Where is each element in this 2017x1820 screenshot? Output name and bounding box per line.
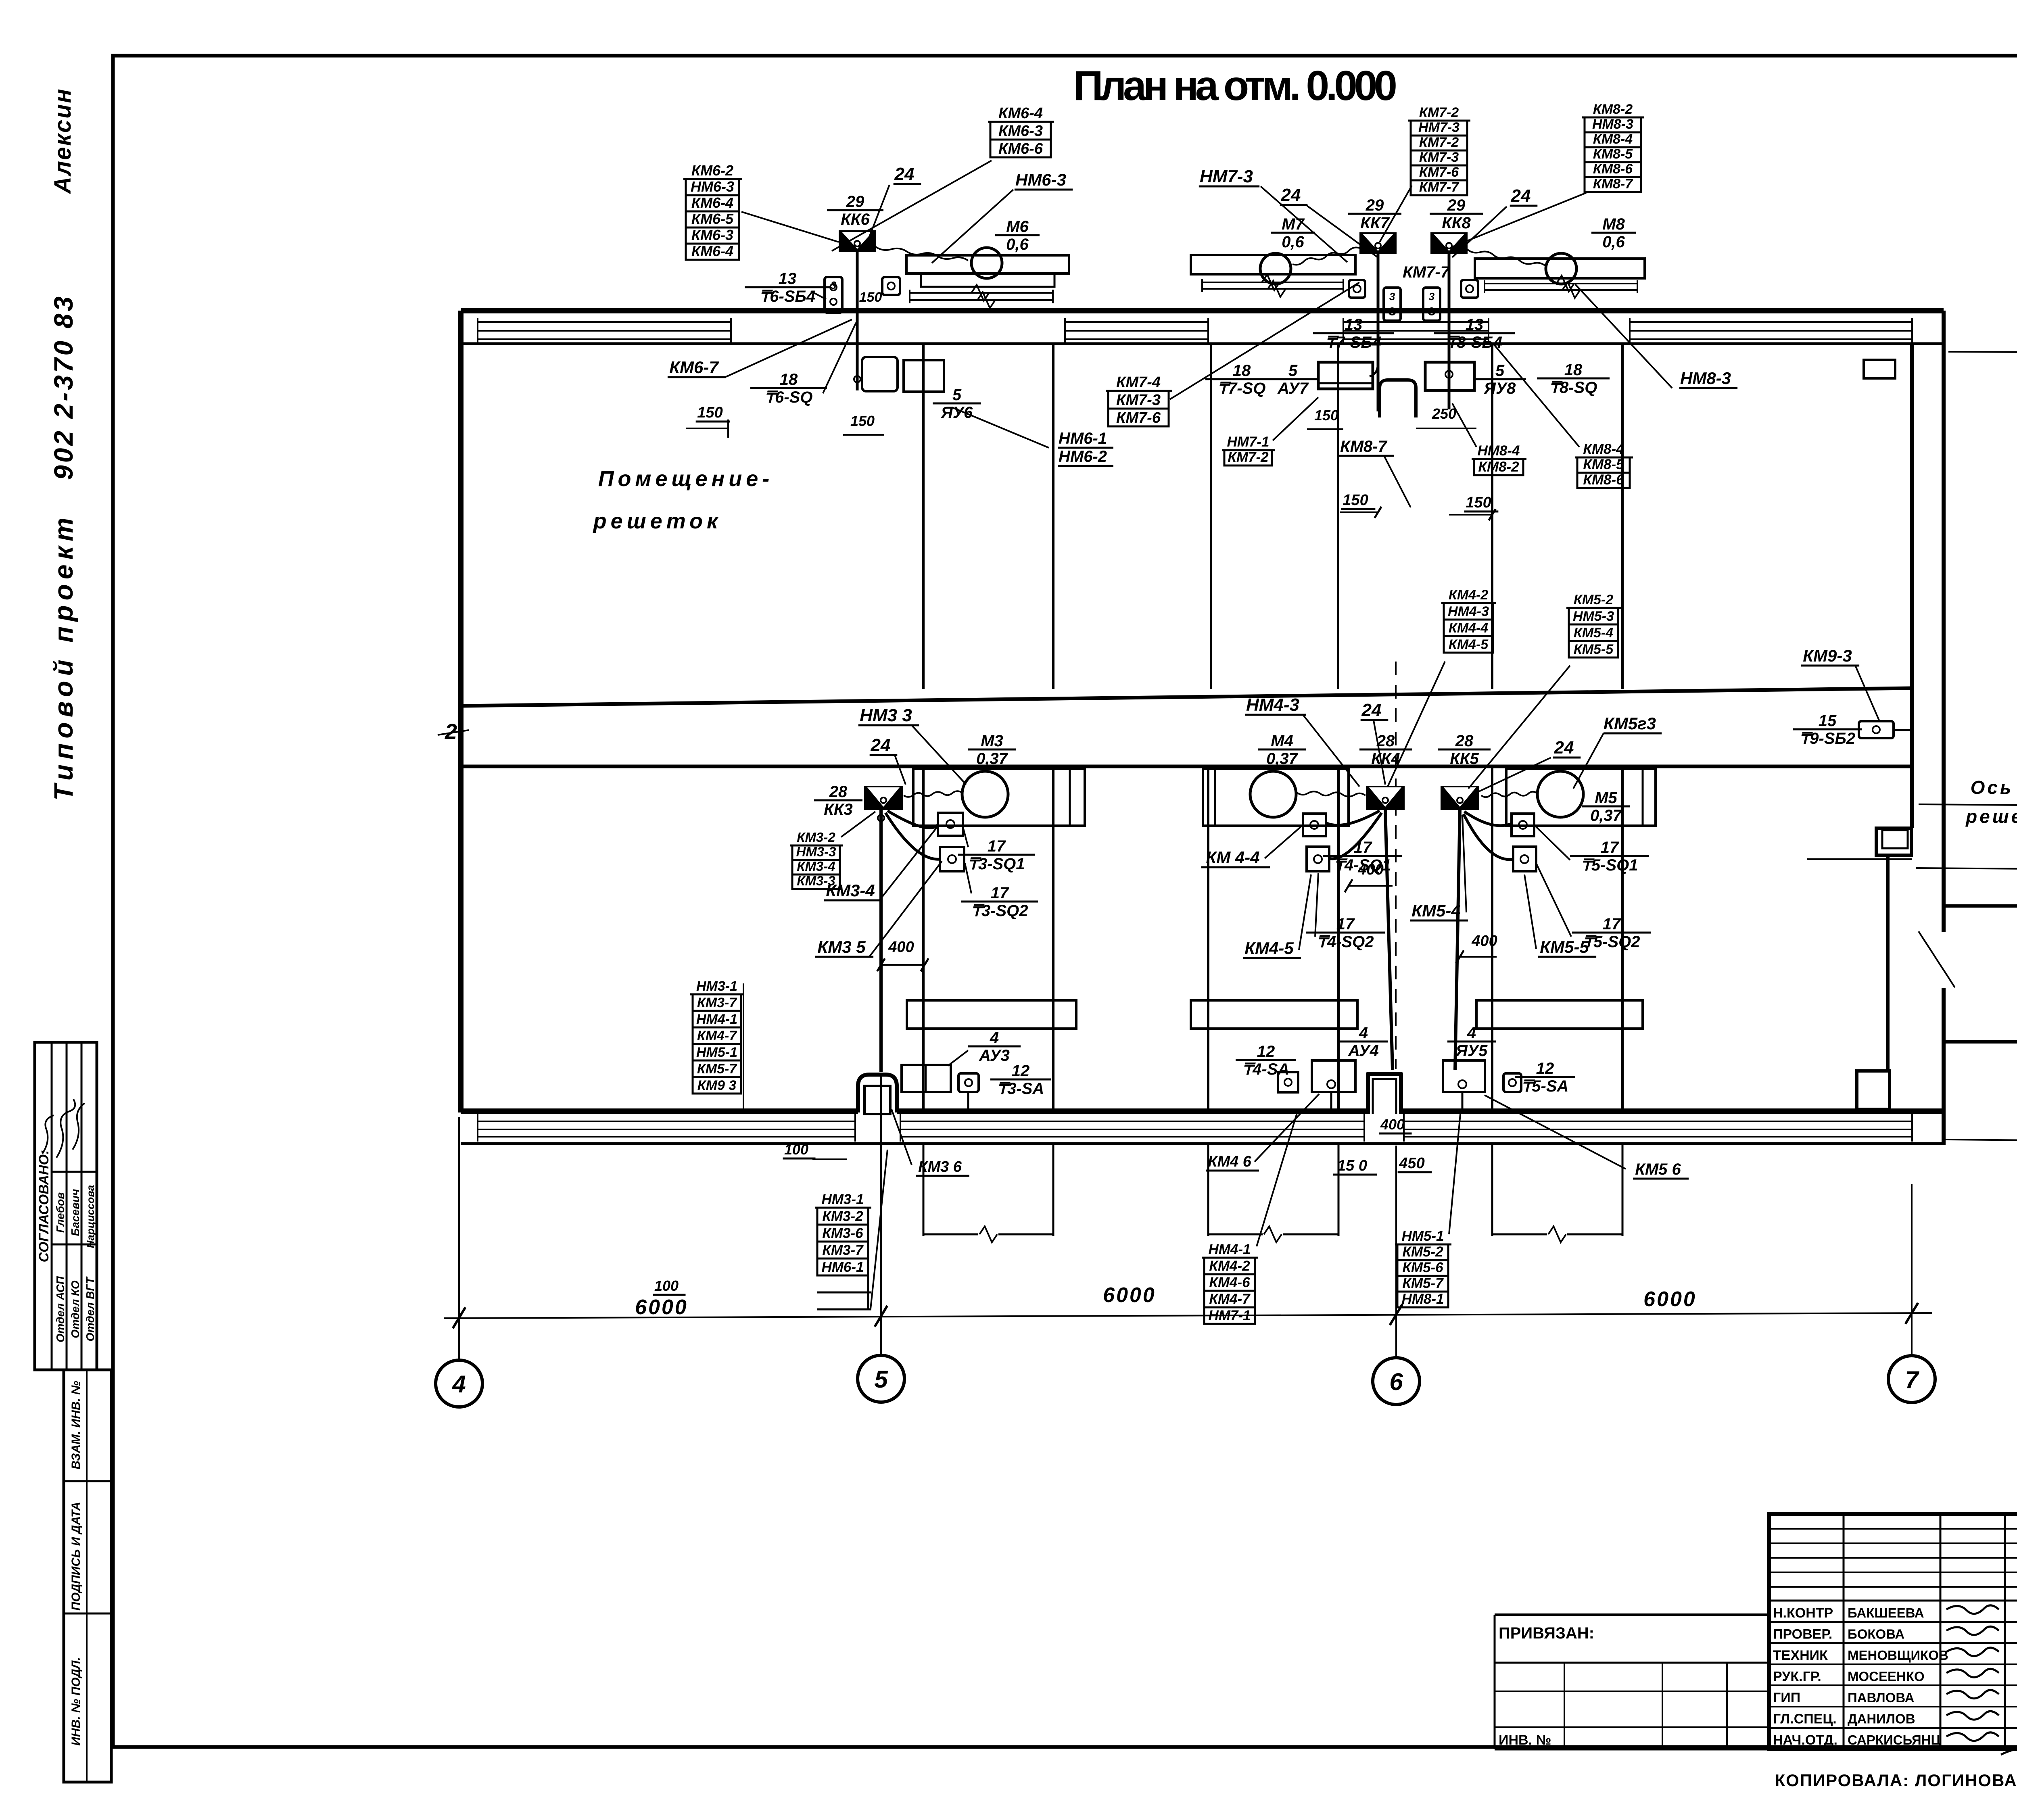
beam row between channels (907, 1000, 1076, 1029)
svg-text:КМ6-3: КМ6-3 (998, 123, 1043, 140)
motor M3 platform (913, 769, 1085, 826)
svg-text:М6: М6 (1006, 218, 1029, 236)
svg-text:НМ7-3: НМ7-3 (1418, 120, 1460, 135)
svg-text:КМ4-2: КМ4-2 (1449, 587, 1488, 603)
motor M8 platform (1475, 259, 1645, 298)
svg-text:КМ5-7: КМ5-7 (697, 1061, 737, 1077)
svg-text:12: 12 (1536, 1060, 1554, 1077)
svg-text:АУ7: АУ7 (1277, 380, 1309, 397)
limit switch boxes M4 (1303, 814, 1326, 836)
svg-text:₸3-SQ2: ₸3-SQ2 (971, 902, 1028, 920)
motor M5 platform (1506, 769, 1656, 826)
label 29/KK8 (1430, 196, 1483, 232)
svg-text:НМ4-3: НМ4-3 (1246, 695, 1299, 715)
motor M8 (1546, 253, 1576, 284)
label 5/АУ7 (1267, 362, 1319, 397)
label 24 M7 (1280, 185, 1308, 205)
svg-text:28: 28 (1455, 732, 1474, 750)
label stack НМ4-1 bottom (1202, 1242, 1258, 1324)
cable from KK7 down (1377, 254, 1380, 411)
svg-text:КМ7-4: КМ7-4 (1116, 374, 1161, 391)
svg-text:КМ7-6: КМ7-6 (1419, 165, 1459, 180)
grate channel A walls lower (922, 766, 925, 1111)
label НМ6-3 (1015, 170, 1073, 190)
svg-text:КМ6-3: КМ6-3 (691, 227, 733, 243)
label НМ7-3 top (1199, 167, 1259, 186)
label 15/9-SБ2 (1793, 712, 1862, 747)
label stack КМ5-2 (1566, 592, 1621, 657)
svg-text:М4: М4 (1271, 732, 1293, 750)
svg-text:КМ6-6: КМ6-6 (998, 140, 1043, 157)
svg-text:150: 150 (697, 404, 722, 421)
label НМ6-2 (1058, 448, 1113, 466)
label 150 bottom (1333, 1157, 1377, 1175)
label НМ4-3 (1245, 695, 1306, 715)
svg-text:5: 5 (874, 1366, 888, 1393)
label 400 bottom (1379, 1116, 1412, 1133)
contactor switch KK8 (1430, 232, 1468, 254)
corridor wall lower (461, 765, 1912, 768)
label 12/4-SА (1236, 1043, 1296, 1078)
label 17/3-SQ2 (961, 884, 1038, 920)
label КМ5-4 (1410, 901, 1468, 920)
svg-text:НМ6-2: НМ6-2 (1059, 448, 1107, 465)
label 18/8-SQ (1537, 361, 1610, 397)
motor M6 platform (906, 255, 1069, 308)
svg-text:₸3-SА: ₸3-SА (997, 1080, 1044, 1098)
svg-text:Алексин: Алексин (50, 88, 76, 194)
svg-text:КМ8-5: КМ8-5 (1593, 146, 1633, 162)
svg-text:18: 18 (1233, 362, 1251, 380)
svg-text:КМ5-6: КМ5-6 (1402, 1260, 1443, 1275)
svg-text:13: 13 (779, 270, 797, 288)
svg-text:НМ3-1: НМ3-1 (821, 1192, 864, 1207)
label stack КМ4-2 (1441, 587, 1496, 653)
svg-text:450: 450 (1399, 1155, 1424, 1172)
label 100 bottom (783, 1141, 816, 1158)
motor M6 (971, 248, 1002, 278)
svg-text:НМ6-3: НМ6-3 (691, 178, 734, 195)
corridor wall upper (461, 688, 1912, 706)
label НМ8-3 (1679, 369, 1737, 388)
svg-text:НМ3-3: НМ3-3 (796, 844, 836, 859)
contactor switch KK4 (1366, 786, 1405, 810)
svg-text:17: 17 (991, 884, 1009, 902)
svg-text:ИНВ. № ПОДЛ.: ИНВ. № ПОДЛ. (69, 1657, 83, 1745)
label М3/0,37 (968, 732, 1016, 768)
svg-text:КМ7-6: КМ7-6 (1116, 409, 1161, 426)
label 4/АУ3 (968, 1029, 1021, 1064)
axis leader Б (1916, 868, 2017, 870)
label 17/5-SQ2 (1572, 915, 1651, 951)
svg-text:24: 24 (894, 164, 915, 184)
svg-text:17: 17 (1354, 839, 1372, 856)
svg-text:₸7-SQ: ₸7-SQ (1218, 380, 1266, 397)
svg-text:КМ4 6: КМ4 6 (1208, 1153, 1252, 1170)
svg-text:5: 5 (1495, 362, 1505, 380)
svg-text:ВЗАМ. ИНВ. №: ВЗАМ. ИНВ. № (69, 1381, 83, 1469)
label КМ6-7 (668, 358, 726, 377)
svg-text:АУ4: АУ4 (1348, 1042, 1379, 1060)
svg-text:3: 3 (1389, 290, 1395, 303)
svg-text:КМ5 6: КМ5 6 (1635, 1160, 1681, 1178)
svg-text:150: 150 (1314, 407, 1338, 424)
svg-text:КМ6-5: КМ6-5 (691, 211, 734, 227)
contactor switch KK6 (839, 230, 876, 252)
svg-text:28: 28 (829, 783, 848, 801)
cable KK3 down to pit (879, 810, 883, 1072)
junction box АУ7 (1318, 362, 1373, 389)
svg-text:КМ5-4: КМ5-4 (1574, 625, 1613, 641)
motor M5 (1537, 771, 1583, 817)
label КМ9-3 (1801, 646, 1859, 666)
label М5/0,37 (1582, 789, 1630, 824)
svg-text:КМ7-2: КМ7-2 (1419, 135, 1459, 150)
svg-text:НМ7-3: НМ7-3 (1200, 167, 1253, 186)
label 18/6-SQ (750, 371, 827, 406)
svg-text:НМ8-4: НМ8-4 (1477, 443, 1520, 459)
grate channel C walls upper (1491, 344, 1493, 689)
svg-text:НМ5-1: НМ5-1 (1401, 1228, 1444, 1244)
svg-text:5: 5 (952, 386, 962, 404)
label КМ4-5 (1243, 939, 1301, 958)
svg-text:КМ7-2: КМ7-2 (1419, 105, 1459, 120)
svg-text:24: 24 (1554, 738, 1574, 758)
svg-text:24: 24 (871, 735, 891, 755)
svg-text:КМ6-4: КМ6-4 (691, 194, 733, 211)
grid circle 6 (1373, 1358, 1420, 1405)
label stack КМ7-4 (1106, 374, 1172, 426)
cable drops below corridor (1330, 1092, 1332, 1112)
dimension line bottom (444, 1313, 1932, 1318)
channel stubs below building (923, 1144, 925, 1236)
label 13/7-SБ4 (1313, 316, 1394, 351)
svg-text:13: 13 (1466, 316, 1484, 334)
svg-text:КК7: КК7 (1360, 214, 1390, 232)
motor M7 platform (1191, 255, 1355, 297)
apron closing line bay6 (1208, 1234, 1263, 1236)
svg-text:РУК.ГР.: РУК.ГР. (1773, 1669, 1821, 1684)
label stack КМ3 (790, 830, 843, 889)
label КМ8-7 mid (1338, 438, 1394, 456)
label 5/ЯУ8 (1474, 362, 1526, 397)
axis line ось решеток (1919, 804, 2017, 806)
svg-text:₸5-SQ2: ₸5-SQ2 (1583, 933, 1640, 951)
motor M7 (1260, 253, 1291, 284)
pit trench bay6 (1368, 1074, 1401, 1114)
svg-text:15 0: 15 0 (1337, 1157, 1367, 1174)
svg-text:М8: М8 (1602, 215, 1625, 233)
side room lower right (1944, 906, 2017, 1042)
svg-text:АУ3: АУ3 (979, 1047, 1010, 1064)
motor M3 (962, 771, 1008, 817)
svg-text:150: 150 (1343, 492, 1368, 509)
svg-text:КМ5-2: КМ5-2 (1574, 592, 1613, 607)
svg-text:КМ7-7: КМ7-7 (1419, 179, 1460, 195)
svg-text:₸8-SБ4: ₸8-SБ4 (1447, 334, 1502, 351)
label 17/5-SQ1 (1570, 839, 1649, 874)
svg-text:ЯУ8: ЯУ8 (1484, 380, 1516, 397)
label КМ3-5 (815, 937, 873, 957)
label НМ3 3 (858, 705, 919, 725)
wall left (458, 311, 464, 1112)
svg-text:КК5: КК5 (1450, 750, 1479, 768)
svg-text:₸6-SБ4: ₸6-SБ4 (760, 288, 815, 305)
label КМ3-4 (824, 881, 882, 900)
svg-text:План на отм. 0.000: План на отм. 0.000 (1073, 63, 1401, 109)
svg-text:Басевич: Басевич (69, 1189, 81, 1236)
svg-text:КМ5-7: КМ5-7 (1402, 1275, 1444, 1291)
svg-text:29: 29 (1447, 196, 1466, 214)
coupling wavy M3 (904, 791, 962, 797)
svg-text:400: 400 (1471, 933, 1497, 950)
coupling wavy M8 (1467, 249, 1546, 266)
svg-text:КМ3-2: КМ3-2 (797, 830, 835, 845)
label stack КМ8-4 (1575, 441, 1633, 488)
limit switch left of KK7 (1349, 280, 1365, 298)
svg-text:12: 12 (1012, 1062, 1030, 1080)
limit switch box near KK6 (882, 277, 900, 295)
label 17/4-SQ2 (1306, 915, 1385, 951)
svg-text:НМ6-1: НМ6-1 (821, 1259, 864, 1275)
svg-text:НМ4-1: НМ4-1 (1208, 1242, 1251, 1257)
svg-text:13: 13 (1345, 316, 1363, 334)
coupling wavy M7 (1292, 248, 1360, 265)
label stack КМ8 top (1582, 102, 1644, 192)
svg-text:₸4-SQ2: ₸4-SQ2 (1317, 933, 1374, 951)
coupling wavy M5 (1481, 792, 1537, 797)
svg-text:НМ8-3: НМ8-3 (1680, 369, 1731, 388)
svg-text:₸7-SБ4: ₸7-SБ4 (1326, 334, 1381, 351)
svg-text:29: 29 (1366, 196, 1384, 214)
label 29/KK6 (827, 193, 883, 228)
svg-text:КМ4-6: КМ4-6 (1209, 1275, 1250, 1290)
svg-text:КМ6-7: КМ6-7 (669, 358, 719, 377)
svg-text:КМ3-7: КМ3-7 (822, 1242, 864, 1258)
svg-text:КМ5-4: КМ5-4 (1411, 901, 1461, 920)
svg-text:КМ3 5: КМ3 5 (817, 937, 866, 956)
junction boxes АУ6 (862, 357, 898, 391)
svg-text:НМ6-3: НМ6-3 (1015, 170, 1066, 189)
svg-text:КМ3-4: КМ3-4 (826, 881, 875, 900)
svg-text:0,37: 0,37 (1266, 750, 1299, 768)
junction box АУ8 (1425, 362, 1474, 390)
svg-text:КМ5-5: КМ5-5 (1574, 642, 1614, 657)
svg-text:400: 400 (1380, 1116, 1405, 1133)
svg-text:КМ3 6: КМ3 6 (918, 1158, 962, 1175)
svg-text:МОСЕЕНКО: МОСЕЕНКО (1848, 1669, 1925, 1684)
svg-text:ТЕХНИК: ТЕХНИК (1773, 1648, 1828, 1663)
svg-text:КОПИРОВАЛА: ЛОГИНОВА: КОПИРОВАЛА: ЛОГИНОВА (1775, 1771, 2017, 1790)
svg-text:150: 150 (1466, 494, 1491, 511)
pushbutton 3-SА (958, 1073, 979, 1092)
svg-text:Отдел АСП: Отдел АСП (54, 1276, 67, 1342)
svg-text:НМ5-3: НМ5-3 (1573, 609, 1614, 624)
contactor switch KK5 (1441, 786, 1479, 810)
svg-text:₸6-SQ: ₸6-SQ (765, 388, 813, 406)
svg-text:КМ7-3: КМ7-3 (1116, 392, 1161, 409)
grate channel C walls lower (1491, 766, 1493, 1111)
hook cable KK7 into АУ7 (1370, 362, 1378, 376)
wall right inner (1910, 344, 1914, 828)
svg-text:КМ8-6: КМ8-6 (1583, 472, 1624, 488)
svg-text:решеток: решеток (1965, 806, 2017, 827)
svg-text:₸3-SQ1: ₸3-SQ1 (968, 855, 1025, 873)
label 24 M5 (1553, 738, 1581, 758)
svg-text:₸5-SQ1: ₸5-SQ1 (1581, 856, 1638, 874)
svg-text:ЯУ5: ЯУ5 (1455, 1042, 1488, 1060)
apron closing line bay7 (1492, 1234, 1547, 1236)
label stack НМ7-1 (1222, 434, 1275, 465)
svg-text:0,6: 0,6 (1602, 233, 1625, 251)
svg-text:Нарциссова: Нарциссова (84, 1185, 96, 1248)
label 29/KK7 (1348, 196, 1401, 232)
svg-text:₸4-SА: ₸4-SА (1242, 1060, 1290, 1078)
coupling wavy M6 (876, 247, 968, 261)
pit trench bay5 (858, 1075, 897, 1112)
svg-text:КМ7-3: КМ7-3 (1419, 150, 1459, 165)
label 24 M3 (870, 735, 898, 755)
svg-text:6000: 6000 (635, 1296, 688, 1319)
label 24 top-left (894, 164, 921, 184)
svg-text:НМ8-3: НМ8-3 (1592, 117, 1633, 132)
svg-text:ЯУ6: ЯУ6 (941, 404, 973, 422)
label 12/3-SА (990, 1062, 1051, 1098)
label 150 mid (1341, 492, 1376, 509)
svg-text:КМ5-2: КМ5-2 (1402, 1244, 1443, 1260)
svg-text:КМ4-7: КМ4-7 (697, 1028, 737, 1044)
svg-text:Ось: Ось (1971, 777, 2014, 798)
coupling wavy M4 (1297, 791, 1366, 797)
svg-text:ПОДПИСЬ И ДАТА: ПОДПИСЬ И ДАТА (69, 1502, 83, 1611)
svg-text:Глебов: Глебов (54, 1192, 67, 1233)
svg-text:17: 17 (988, 837, 1006, 855)
svg-text:6: 6 (1389, 1368, 1403, 1395)
svg-text:КМ3-4: КМ3-4 (797, 859, 835, 874)
svg-text:КМ3-7: КМ3-7 (697, 995, 737, 1010)
svg-text:ПАВЛОВА: ПАВЛОВА (1848, 1690, 1914, 1705)
svg-text:6000: 6000 (1103, 1284, 1156, 1307)
svg-text:КМ8-2: КМ8-2 (1593, 102, 1633, 117)
svg-text:НАЧ.ОТД.: НАЧ.ОТД. (1773, 1732, 1837, 1748)
svg-text:902 2-370 83: 902 2-370 83 (48, 294, 78, 480)
svg-text:Отдел КО: Отдел КО (69, 1280, 81, 1338)
svg-text:4: 4 (452, 1371, 466, 1398)
arc KK3 to SQ1 (887, 811, 938, 828)
svg-text:17: 17 (1603, 915, 1621, 933)
grid circle 5 (858, 1355, 904, 1402)
svg-text:12: 12 (1257, 1043, 1275, 1060)
svg-text:17: 17 (1601, 839, 1619, 856)
svg-text:4: 4 (990, 1029, 999, 1047)
label 150 right (1464, 494, 1499, 511)
label stack КМ7 top (1408, 105, 1470, 195)
grid axis extension lines (458, 1117, 460, 1360)
svg-text:₸9-SБ2: ₸9-SБ2 (1800, 730, 1855, 747)
small box top right corner (1864, 360, 1895, 378)
svg-text:4: 4 (1359, 1024, 1368, 1042)
svg-text:КМ7-2: КМ7-2 (1228, 449, 1269, 465)
left margin strips ВЗАМ/ПОДПИСЬ/ИНВ (64, 1370, 111, 1782)
svg-text:МЕНОВЩИКОВ: МЕНОВЩИКОВ (1848, 1648, 1948, 1663)
label 12/5-SА (1515, 1060, 1575, 1095)
label stack НМ3-1 bottom (815, 1192, 871, 1309)
svg-text:М7: М7 (1282, 215, 1305, 233)
switch boxes near grid 6 (1384, 288, 1440, 321)
label КМ3 6 (916, 1158, 969, 1176)
junction box АУ3 (902, 1065, 951, 1092)
arc KK3 to SQ2 (885, 813, 940, 859)
pushbutton 5-SА (1503, 1073, 1521, 1092)
svg-text:ГЛ.СПЕЦ.: ГЛ.СПЕЦ. (1773, 1711, 1837, 1727)
svg-text:ДАНИЛОВ: ДАНИЛОВ (1848, 1711, 1915, 1726)
motor M4 platform (1203, 769, 1349, 826)
svg-text:3: 3 (1429, 290, 1435, 303)
duct U between АУ7 АУ8 (1380, 380, 1416, 417)
label 13/8-SБ4 (1434, 316, 1515, 351)
svg-text:КМ6-2: КМ6-2 (691, 162, 733, 179)
grid 6 dashed axis in corridor (1395, 662, 1397, 1069)
grate channel A walls upper (922, 344, 925, 689)
grate channel B walls upper (1210, 344, 1212, 689)
svg-text:решеток: решеток (593, 509, 722, 533)
svg-text:КМ8-4: КМ8-4 (1593, 131, 1633, 147)
svg-text:ПРОВЕР.: ПРОВЕР. (1773, 1627, 1832, 1642)
contactor switch KK3 (864, 786, 903, 810)
svg-text:29: 29 (846, 193, 864, 211)
svg-text:150: 150 (859, 290, 882, 305)
svg-text:КМ8-4: КМ8-4 (1583, 441, 1624, 457)
svg-text:М3: М3 (981, 732, 1003, 750)
axis leader В (1948, 352, 2017, 353)
wall right outer (1857, 311, 2017, 1145)
svg-text:18: 18 (1564, 361, 1583, 379)
svg-text:24: 24 (1281, 185, 1301, 205)
svg-text:САРКИСЬЯНЦ: САРКИСЬЯНЦ (1848, 1732, 1941, 1747)
svg-text:КМ4-7: КМ4-7 (1209, 1291, 1251, 1307)
svg-text:КК3: КК3 (824, 801, 852, 818)
svg-text:400: 400 (888, 939, 914, 956)
label 450 bottom (1398, 1155, 1432, 1172)
signature НАЧ ОТД long scribble (2001, 1741, 2017, 1756)
switch box 3 left of KK6 (825, 277, 842, 313)
right wall notch at А (1857, 1071, 1890, 1109)
right wall notch at Б (1876, 828, 1911, 855)
svg-text:Помещение-: Помещение- (598, 467, 774, 491)
svg-text:БАКШЕЕВА: БАКШЕЕВА (1848, 1605, 1924, 1620)
label КМ5 6 (1633, 1160, 1689, 1179)
svg-text:4: 4 (1467, 1024, 1476, 1042)
label stack bottom left list (690, 979, 744, 1094)
svg-text:3: 3 (831, 279, 837, 291)
svg-text:₸8-SQ: ₸8-SQ (1549, 379, 1597, 397)
svg-text:НМ4-3: НМ4-3 (1448, 604, 1489, 619)
svg-text:КМ4-4: КМ4-4 (1449, 620, 1488, 636)
svg-text:₸5-SА: ₸5-SА (1522, 1077, 1569, 1095)
svg-text:250: 250 (1432, 405, 1456, 422)
label 24 M4 (1361, 700, 1389, 720)
pushbutton 9-SБ2 (1859, 721, 1894, 738)
svg-text:ПРИВЯЗАН:: ПРИВЯЗАН: (1499, 1624, 1594, 1642)
label 28/KK4 (1359, 732, 1412, 768)
label КМ5-5 (1538, 937, 1596, 957)
svg-text:КМ3-6: КМ3-6 (822, 1225, 863, 1241)
svg-text:КМ6-4: КМ6-4 (691, 243, 733, 259)
axis leader А (1944, 1140, 2017, 1142)
door swing (1919, 931, 1955, 987)
limit switch boxes M3 (938, 813, 963, 836)
title block left extension ПРИВЯЗАН (1495, 1615, 1769, 1749)
